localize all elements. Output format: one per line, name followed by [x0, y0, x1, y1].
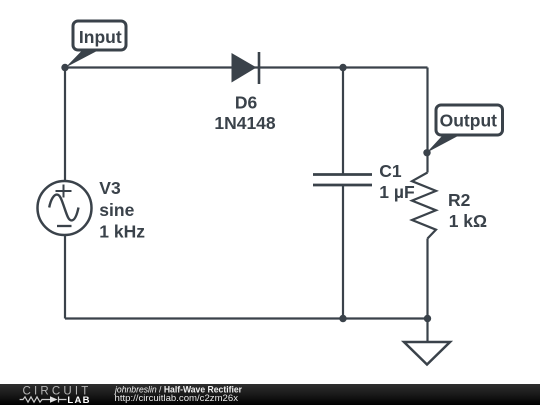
svg-text:R2: R2	[448, 190, 471, 210]
svg-text:V3: V3	[99, 178, 121, 198]
svg-text:D6: D6	[235, 92, 258, 112]
svg-text:1 kΩ: 1 kΩ	[449, 211, 487, 231]
svg-text:Output: Output	[440, 111, 498, 131]
svg-text:C1: C1	[379, 161, 402, 181]
svg-text:LAB: LAB	[67, 395, 90, 405]
svg-text:1 µF: 1 µF	[379, 182, 415, 202]
svg-text:sine: sine	[99, 200, 134, 220]
svg-text:Input: Input	[79, 27, 122, 47]
svg-text:1N4148: 1N4148	[214, 113, 276, 133]
svg-text:http://circuitlab.com/c2zm26x: http://circuitlab.com/c2zm26x	[115, 393, 239, 403]
svg-text:1 kHz: 1 kHz	[99, 221, 145, 241]
